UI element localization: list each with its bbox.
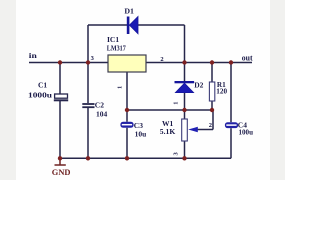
diode D1	[127, 17, 138, 35]
node: in/C1	[58, 60, 62, 64]
svg-text:2: 2	[209, 122, 212, 129]
wire: ground bus y=158.3	[60, 157, 231, 159]
svg-text:1: 1	[173, 102, 180, 105]
regulator IC1 body (LM317)	[108, 55, 146, 72]
svg-text:1: 1	[117, 86, 124, 89]
left gray band	[0, 0, 16, 180]
wire: top loop left horizontal to D1 anode-bar	[88, 24, 127, 26]
svg-text:104: 104	[96, 110, 108, 119]
node: gnd/W1	[182, 156, 186, 160]
svg-text:in: in	[29, 51, 38, 60]
node: gnd/C1	[58, 156, 62, 160]
wire: C2 upper lead	[87, 63, 89, 104]
svg-text:100u: 100u	[239, 128, 254, 137]
svg-text:120: 120	[216, 88, 227, 96]
wire: C4 lower lead	[230, 128, 232, 158]
wire: R1 upper lead	[211, 63, 213, 83]
wire: C4 upper lead	[230, 63, 232, 123]
wire: C3 lower lead	[126, 128, 128, 159]
svg-text:out: out	[242, 53, 253, 62]
resistor R1	[209, 82, 214, 101]
svg-text:GND: GND	[52, 168, 71, 177]
wire: input net at y=62.5 from "in" port to IC pin3	[29, 62, 108, 64]
svg-text:5.1K: 5.1K	[160, 127, 176, 136]
wire: C1 upper lead	[59, 63, 61, 95]
node: gnd/C2	[86, 156, 90, 160]
node: ADJ/R1/wiper	[210, 108, 214, 112]
wire: C1 lower lead	[59, 101, 61, 159]
wire: C2 lower lead	[87, 108, 89, 158]
wire: D2 anode lead	[184, 93, 186, 111]
svg-text:1000u: 1000u	[28, 91, 52, 100]
wire: C3 upper lead	[126, 110, 128, 122]
wire: R1 lower lead	[211, 101, 213, 110]
wire: top loop left riser x=88	[87, 25, 89, 63]
capacitor C4	[225, 122, 238, 128]
capacitor C1	[54, 94, 68, 100]
node: ADJ/D2/W1	[182, 108, 186, 112]
wire: IC pin1 (ADJ) down from IC	[126, 72, 128, 110]
junction dots	[58, 60, 233, 160]
node: out/D1 loop/D2	[182, 60, 186, 64]
svg-text:C2: C2	[95, 100, 104, 109]
wire: top loop right horizontal from D1 to right riser	[138, 24, 185, 26]
node: ADJ/C3	[125, 108, 129, 112]
svg-text:LM317: LM317	[107, 44, 126, 53]
wire: W1 wiper to R1 bottom net	[198, 110, 214, 130]
wire: top loop right riser x=184.5	[184, 25, 186, 63]
capacitor C3	[120, 122, 133, 128]
wire: output net y=62.5 from IC pin2 to out port	[146, 62, 252, 64]
wire: W1 pin3 lead	[184, 141, 186, 158]
potentiometer W1	[182, 119, 198, 141]
svg-text:D2: D2	[194, 81, 203, 90]
diode D2	[175, 81, 195, 93]
node: in/C2/top loop	[86, 60, 90, 64]
node: out/C4	[229, 60, 233, 64]
ground	[55, 158, 66, 165]
node: out/R1	[210, 60, 214, 64]
wire: ADJ horizontal net y=110	[127, 109, 213, 111]
svg-text:D1: D1	[124, 7, 134, 16]
svg-text:10u: 10u	[135, 129, 147, 138]
wire: D2 cathode lead	[184, 63, 186, 82]
capacitor C2	[82, 104, 94, 107]
svg-text:2: 2	[160, 56, 163, 63]
right gray band	[270, 0, 285, 180]
svg-text:C1: C1	[38, 80, 47, 89]
wire: W1 pin1 lead	[184, 110, 186, 119]
node: gnd/C3	[125, 156, 129, 160]
